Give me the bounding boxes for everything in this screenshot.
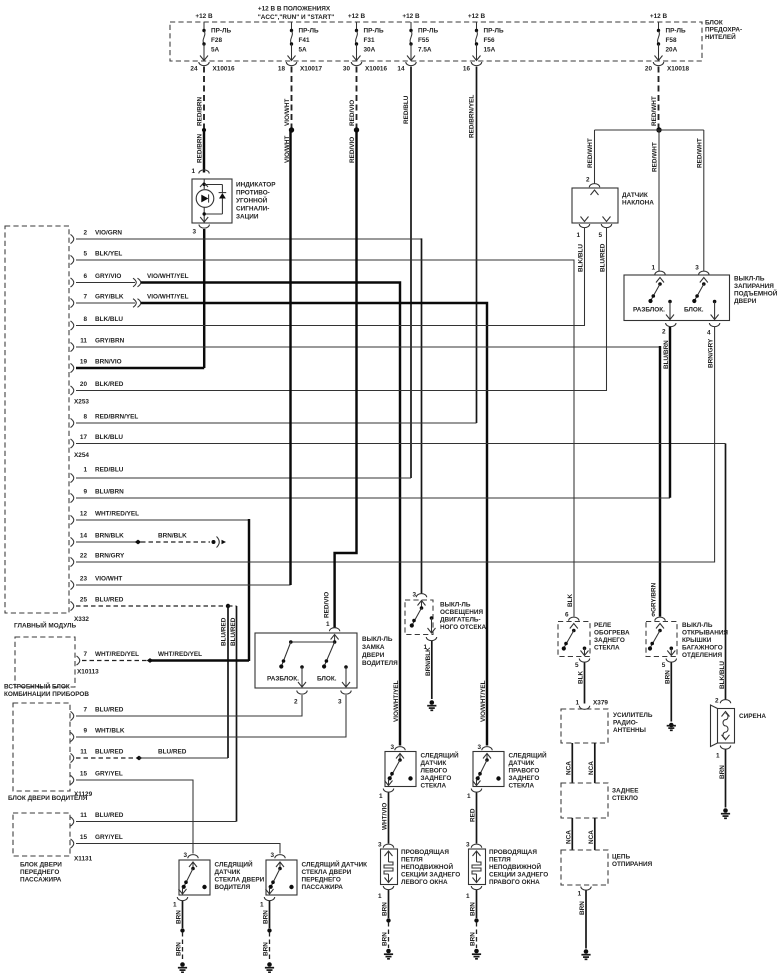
pin 1 connector of unlock circuit <box>577 887 591 916</box>
connector pin 14 of fuse F55 <box>397 62 416 73</box>
svg-text:1: 1 <box>575 700 579 707</box>
wire BLU/RED solid from splice up branch <box>139 748 228 758</box>
pin 11 BLU/RED of passenger door module <box>71 812 124 826</box>
pin 1 of driver door glass tracking sensor <box>173 897 188 909</box>
splice junction RED/WHT node <box>656 127 661 132</box>
splice on BRN wire of right rear window fixed section conducting loop <box>474 918 478 922</box>
svg-text:1: 1 <box>651 265 655 272</box>
wire BLU/RED jumper to second branch <box>228 605 237 607</box>
svg-text:ЗАМКА: ЗАМКА <box>362 644 385 651</box>
svg-text:+12 В: +12 В <box>650 13 668 20</box>
rear window ЗАДНЕЕ СТЕКЛО block <box>561 783 639 818</box>
wire NCA left from amplifier <box>565 743 572 783</box>
svg-text:+12 В: +12 В <box>402 13 420 20</box>
svg-text:ЗАДНЕГО: ЗАДНЕГО <box>421 775 452 782</box>
svg-text:ЗАДНЕГО: ЗАДНЕГО <box>509 775 540 782</box>
fuse F56 15A <box>473 22 504 61</box>
svg-text:ПРОВОДЯЩАЯ: ПРОВОДЯЩАЯ <box>401 849 449 856</box>
pin 2 of siren H1 <box>715 698 731 705</box>
svg-text:6: 6 <box>83 273 87 280</box>
svg-text:RED/WHT: RED/WHT <box>652 142 659 172</box>
svg-text:RED/VIO: RED/VIO <box>349 137 356 163</box>
svg-text:СИРЕНА: СИРЕНА <box>739 713 766 720</box>
svg-text:2: 2 <box>715 698 719 705</box>
pin 2 connector of lock switch <box>294 691 307 706</box>
svg-text:7: 7 <box>83 651 87 658</box>
svg-text:4: 4 <box>707 330 711 337</box>
svg-text:RED/WHT: RED/WHT <box>587 138 594 168</box>
svg-text:ДАТЧИК: ДАТЧИК <box>622 192 648 199</box>
svg-text:9: 9 <box>83 727 87 734</box>
svg-text:ЗАПИРАНИЯ: ЗАПИРАНИЯ <box>734 283 774 290</box>
pin 20 BLK/RED of main module <box>71 386 74 395</box>
switch contact БЛОК of hatch lock switch <box>684 278 708 314</box>
svg-text:СЛЕДЯЩИЙ: СЛЕДЯЩИЙ <box>421 751 459 760</box>
svg-text:VIO/GRN: VIO/GRN <box>95 229 122 236</box>
ground for driver door glass tracking sensor <box>178 962 187 972</box>
svg-text:8: 8 <box>83 413 87 420</box>
svg-text:BRN: BRN <box>176 942 183 956</box>
svg-text:ПР-ЛЬ: ПР-ЛЬ <box>299 28 319 35</box>
svg-text:ОБОГРЕВА: ОБОГРЕВА <box>594 630 630 637</box>
wire BRN dashed from splice of passenger door glass tracking sensor <box>263 932 270 962</box>
svg-text:РАДИО-: РАДИО- <box>613 720 638 727</box>
svg-text:ВЫКЛ-ЛЬ: ВЫКЛ-ЛЬ <box>734 276 765 283</box>
svg-text:3: 3 <box>390 744 394 751</box>
pin 5 contact and arrow of trunk release switch <box>667 647 675 656</box>
connector pin 18 of fuse F41 <box>278 62 323 73</box>
svg-text:ВОДИТЕЛЯ: ВОДИТЕЛЯ <box>362 660 398 667</box>
svg-text:8: 8 <box>83 316 87 323</box>
wire BRN/BLK from engine light switch to ground <box>431 641 433 699</box>
svg-text:ОТПИРАНИЯ: ОТПИРАНИЯ <box>612 861 653 868</box>
svg-text:11: 11 <box>80 812 87 819</box>
svg-text:ИНДИКАТОР: ИНДИКАТОР <box>236 182 276 189</box>
pin 3 of right rear window fixed section conducting loop <box>466 842 482 849</box>
svg-text:X1131: X1131 <box>74 856 93 863</box>
svg-text:ПРАВОГО: ПРАВОГО <box>509 768 540 775</box>
antenna connector symbol on BRN/BLK wire <box>212 537 227 548</box>
splice on wire RED/VIO <box>354 127 359 132</box>
pin 3 of right rear window tracking sensor <box>477 744 492 751</box>
svg-text:BLU/RED: BLU/RED <box>95 596 124 603</box>
svg-text:ПР-ЛЬ: ПР-ЛЬ <box>364 28 384 35</box>
svg-text:ПР-ЛЬ: ПР-ЛЬ <box>418 28 438 35</box>
svg-text:ВЫКЛ-ЛЬ: ВЫКЛ-ЛЬ <box>362 636 393 643</box>
svg-text:ПЕТЛЯ: ПЕТЛЯ <box>489 857 511 864</box>
fuse box enclosure (БЛОК ПРЕДОХРАНИТЕЛЕЙ) <box>170 20 742 62</box>
pin 1 of passenger door glass tracking sensor <box>260 897 275 909</box>
svg-text:30A: 30A <box>364 47 376 54</box>
svg-text:GRY/BRN: GRY/BRN <box>95 337 125 344</box>
ground for left rear window fixed section conducting loop <box>384 949 393 959</box>
svg-text:15A: 15A <box>484 47 496 54</box>
svg-text:ДАТЧИК: ДАТЧИК <box>215 869 241 876</box>
wire RED/VIO from fuse F31 with jog to lock switch pin 1 <box>324 130 357 628</box>
wire BLK/BLU from pin 17 to siren pin 2 <box>76 443 726 445</box>
svg-text:X10113: X10113 <box>77 669 99 676</box>
wire BRN from trunk switch pin 5 to ground <box>670 663 672 722</box>
svg-text:ОТКРЫВАНИЯ: ОТКРЫВАНИЯ <box>682 630 728 637</box>
left rear window tracking sensor <box>385 751 459 790</box>
svg-text:2: 2 <box>83 229 87 236</box>
wire RED/BLU from fuse F55 pin 14 <box>403 67 411 479</box>
driver door module БЛОК ДВЕРИ ВОДИТЕЛЯ enclosure <box>8 703 88 802</box>
svg-text:BLK: BLK <box>578 670 585 684</box>
LED indicator ИНДИКАТОР ПРОТИВОУГОННОЙ СИГНАЛИЗАЦИИ <box>192 179 276 223</box>
svg-text:ВЫКЛ-ЛЬ: ВЫКЛ-ЛЬ <box>682 622 713 629</box>
svg-text:BRN: BRN <box>263 910 270 924</box>
svg-text:3: 3 <box>192 229 196 236</box>
svg-text:30: 30 <box>343 66 351 73</box>
pin 14 BRN/BLK of main module <box>71 537 74 546</box>
wire BRN dashed from splice of left rear window fixed section conducting loop <box>382 922 389 948</box>
wire BLU/RED from passenger door pin 11 up branch <box>76 821 237 823</box>
right rear window fixed section conducting loop <box>469 849 549 886</box>
wire WHT/RED/YEL dashed from cluster pin 7 <box>82 660 148 662</box>
svg-text:F56: F56 <box>484 37 495 44</box>
svg-text:BLK/BLU: BLK/BLU <box>577 244 584 272</box>
svg-text:1: 1 <box>191 168 195 175</box>
svg-text:BRN: BRN <box>382 902 389 916</box>
pin 3 of driver door glass tracking sensor <box>183 852 198 859</box>
instrument cluster ВСТРОЕННЫЙ БЛОК КОМБИНАЦИИ ПРИБОРОВ enclosure <box>4 637 89 698</box>
svg-text:RED/BRN/YEL: RED/BRN/YEL <box>469 95 476 138</box>
svg-text:ДВЕРИ: ДВЕРИ <box>362 652 385 659</box>
svg-text:24: 24 <box>190 66 198 73</box>
wire RED/WHT branch to hatch lock switch pin 1 <box>652 130 660 271</box>
svg-text:"ACC","RUN" И "START": "ACC","RUN" И "START" <box>258 14 335 21</box>
svg-text:1: 1 <box>576 232 580 239</box>
svg-text:3: 3 <box>412 592 416 599</box>
wire BLU/BRN from pin 9 to hatch lock switch pin 2 <box>76 497 670 499</box>
wire VIO/WHT from pin 23 up to fuse F41 <box>76 584 291 586</box>
pin 15 GRY/YEL of driver door module <box>71 770 123 784</box>
svg-text:VIO/WHT/YEL: VIO/WHT/YEL <box>393 680 400 722</box>
svg-text:5: 5 <box>662 662 666 669</box>
pin 1 of LED indicator U1 <box>191 168 209 187</box>
svg-text:СТЕКЛО: СТЕКЛО <box>612 795 638 802</box>
svg-text:3: 3 <box>183 852 187 859</box>
svg-text:1: 1 <box>378 893 382 900</box>
wire VIO/WHT vertical from fuse F41 <box>289 130 291 585</box>
wire BLK from relay pin 5 to antenna amplifier <box>584 663 586 704</box>
svg-text:ВСТРОЕННЫЙ БЛОК: ВСТРОЕННЫЙ БЛОК <box>4 682 70 691</box>
svg-text:ПР-ЛЬ: ПР-ЛЬ <box>484 28 504 35</box>
svg-text:X332: X332 <box>74 616 89 623</box>
svg-text:3: 3 <box>695 265 699 272</box>
connector pin 16 of fuse F56 <box>463 62 482 73</box>
svg-text:ПАССАЖИРА: ПАССАЖИРА <box>20 877 62 884</box>
svg-text:ПАССАЖИРА: ПАССАЖИРА <box>302 884 344 891</box>
pin 6 of rear window heater relay K1 <box>565 593 579 620</box>
svg-text:BRN/BLK: BRN/BLK <box>158 532 187 539</box>
pin 6 GRY/VIO of main module <box>71 278 74 287</box>
wire GRY/YEL from driver door pin 15 to driver window sensor <box>76 780 193 854</box>
svg-text:22: 22 <box>80 552 88 559</box>
pin 3 contact and arrow of lock switch <box>342 665 350 687</box>
pin 7 GRY/BLK of main module <box>71 298 74 307</box>
wire WHT/BLK from door pin 9 to lock switch pin 3 <box>76 695 346 737</box>
svg-text:BRN: BRN <box>263 942 270 956</box>
svg-text:BLU/BRN: BLU/BRN <box>95 488 124 495</box>
svg-text:15: 15 <box>80 770 88 777</box>
svg-text:RED/BRN: RED/BRN <box>197 97 204 126</box>
svg-text:АНТЕННЫ: АНТЕННЫ <box>613 727 646 734</box>
pin 9 WHT/BLK of driver door module <box>71 727 125 741</box>
svg-text:+12 В: +12 В <box>468 13 486 20</box>
svg-text:RED: RED <box>470 808 477 822</box>
svg-text:РЕЛЕ: РЕЛЕ <box>594 622 612 629</box>
+12V ACC RUN START label F41 <box>258 6 335 22</box>
pin 3 of LED indicator U1 <box>192 217 209 236</box>
svg-text:6: 6 <box>565 612 569 619</box>
svg-text:BLU/RED: BLU/RED <box>599 243 606 272</box>
svg-text:СЕКЦИИ ЗАДНЕГО: СЕКЦИИ ЗАДНЕГО <box>489 872 548 879</box>
svg-text:F58: F58 <box>666 37 677 44</box>
svg-text:СЛЕДЯЩИЙ ДАТЧИК: СЛЕДЯЩИЙ ДАТЧИК <box>302 860 368 869</box>
svg-text:15: 15 <box>80 834 88 841</box>
svg-text:БЛОК: БЛОК <box>705 20 723 27</box>
right rear window tracking sensor <box>473 751 547 790</box>
pin 3 of passenger door glass tracking sensor <box>270 852 285 859</box>
wire BLU/RED dashed from pin 25 <box>76 605 226 607</box>
svg-text:RED/VIO: RED/VIO <box>324 592 331 618</box>
wire VIO/WHT from fuse pin (dashed harness) <box>284 67 292 129</box>
svg-text:3: 3 <box>466 842 470 849</box>
svg-text:BLK/YEL: BLK/YEL <box>95 250 122 257</box>
fuse F55 7.5A <box>407 22 438 61</box>
svg-text:ГЛАВНЫЙ МОДУЛЬ: ГЛАВНЫЙ МОДУЛЬ <box>14 621 76 630</box>
svg-text:1: 1 <box>466 893 470 900</box>
svg-text:ЗАЦИИ: ЗАЦИИ <box>236 214 259 221</box>
svg-text:3: 3 <box>378 842 382 849</box>
wire BLU/BRN thick segment below hatch pin 2 <box>669 327 671 498</box>
svg-text:BRN: BRN <box>664 670 671 684</box>
pin 2 connector of hatch lock switch <box>662 323 676 369</box>
svg-text:СТЕКЛА: СТЕКЛА <box>509 783 535 790</box>
svg-text:X10016: X10016 <box>213 66 235 73</box>
svg-text:ЛЕВОГО: ЛЕВОГО <box>421 768 448 775</box>
wire RED/BRN/YEL from fuse F56 pin 16 <box>469 67 477 424</box>
svg-text:X10018: X10018 <box>667 66 689 73</box>
svg-text:КРЫШКИ: КРЫШКИ <box>682 637 712 644</box>
svg-text:BLU/RED: BLU/RED <box>230 617 237 646</box>
svg-text:5: 5 <box>575 662 579 669</box>
pin 1 contact and arrow of engine light switch <box>428 616 436 633</box>
pin 4 contact and arrow of hatch lock switch <box>711 300 719 320</box>
trunk release switch ВЫКЛ-ЛЬ ОТКРЫВАНИЯ КРЫШКИ БАГАЖНОГО ОТДЕЛЕНИЯ <box>646 622 728 660</box>
svg-text:NCA: NCA <box>588 761 595 775</box>
siren СИРЕНА <box>711 705 767 747</box>
tilt sensor ДАТЧИК НАКЛОНА <box>572 188 654 223</box>
svg-text:7: 7 <box>83 706 87 713</box>
pin 1 RED/BLU of connector X254 <box>71 473 74 482</box>
passenger door glass tracking sensor <box>266 860 368 896</box>
wire BLK/YEL from pin 5 to heater relay pin 6 <box>76 260 574 617</box>
ground G1 for engine light switch <box>427 700 436 710</box>
svg-text:7.5A: 7.5A <box>418 47 432 54</box>
svg-text:VIO/WHT: VIO/WHT <box>284 99 291 126</box>
engine light switch ВЫКЛ-ЛЬ ОСВЕЩЕНИЯ ДВИГАТЕЛЬНОГО ОТСЕКА <box>405 600 487 635</box>
svg-text:3: 3 <box>477 744 481 751</box>
svg-text:+12 В: +12 В <box>195 13 213 20</box>
switch contact of heater relay <box>562 624 578 651</box>
svg-text:VIO/WHT/YEL: VIO/WHT/YEL <box>147 273 189 280</box>
svg-text:BLK/BLU: BLK/BLU <box>95 316 123 323</box>
inline connector on pin 6 wire <box>76 273 189 287</box>
svg-text:1: 1 <box>260 902 264 909</box>
svg-text:БЛОК.: БЛОК. <box>317 676 337 683</box>
pin 5 of tilt sensor <box>598 217 611 273</box>
wire RED/WHT bus to three branches <box>595 129 704 131</box>
pin 1 of tilt sensor <box>576 217 589 273</box>
pin 8 RED/BRN/YEL of connector X253 <box>71 418 74 427</box>
svg-text:СЛЕДЯЩИЙ: СЛЕДЯЩИЙ <box>215 860 253 869</box>
pin 5 BLK/YEL of main module <box>71 255 74 264</box>
fuse F41 5A <box>288 22 319 61</box>
svg-text:VIO/WHT: VIO/WHT <box>95 575 122 582</box>
svg-text:NCA: NCA <box>565 830 572 844</box>
svg-text:11: 11 <box>80 337 87 344</box>
wire RED/BRN solid to LED indicator pin 1 <box>203 130 205 173</box>
svg-text:НИТЕЛЕЙ: НИТЕЛЕЙ <box>705 32 736 41</box>
svg-text:ДАТЧИК: ДАТЧИК <box>421 760 447 767</box>
svg-text:ВОДИТЕЛЯ: ВОДИТЕЛЯ <box>215 884 251 891</box>
pin 5 connector of heater relay <box>575 659 590 685</box>
svg-text:BLK/RED: BLK/RED <box>95 381 124 388</box>
svg-text:25: 25 <box>80 596 88 603</box>
svg-text:GRY/BRN: GRY/BRN <box>651 582 658 612</box>
pin 8 BLK/BLU of main module <box>71 321 74 330</box>
wire WHT/RED/YEL solid to pin 12 branch <box>150 651 249 661</box>
fuse F31 30A <box>353 22 384 61</box>
splice on BRN/BLK wire <box>135 540 142 545</box>
connector pin 20 of fuse F58 <box>645 62 690 73</box>
svg-text:RED/BLU: RED/BLU <box>403 95 410 124</box>
svg-text:16: 16 <box>463 66 471 73</box>
driver door glass tracking sensor <box>179 860 265 896</box>
svg-text:УГОННОЙ: УГОННОЙ <box>236 196 268 205</box>
svg-text:5A: 5A <box>299 47 308 54</box>
svg-text:3: 3 <box>270 852 274 859</box>
pin 11 GRY/BRN of main module <box>71 342 74 351</box>
svg-text:RED/WHT: RED/WHT <box>696 138 703 168</box>
wire BLK/BLU from pin 8 to tilt sensor pin 1 <box>76 228 585 326</box>
pin 6 of trunk release switch <box>651 582 666 620</box>
svg-text:BRN: BRN <box>470 932 477 946</box>
wire BRN/BLK from pin 14 to antenna tap <box>76 541 137 543</box>
svg-text:1: 1 <box>173 902 177 909</box>
pin 1 of hatch lock switch <box>651 265 665 275</box>
pin 11 BLU/RED of driver door module <box>71 748 124 762</box>
pin 3 of left rear window fixed section conducting loop <box>378 842 394 849</box>
svg-text:17: 17 <box>80 434 88 441</box>
rear window heater relay РЕЛЕ ОБОГРЕВА ЗАДНЕГО СТЕКЛА <box>558 622 630 657</box>
svg-text:WHT/RED/YEL: WHT/RED/YEL <box>158 651 202 658</box>
wire BRN from driver door glass tracking sensor to splice <box>176 901 183 928</box>
svg-text:1: 1 <box>326 621 330 628</box>
svg-text:RED/BRN/YEL: RED/BRN/YEL <box>95 413 138 420</box>
ground for passenger door glass tracking sensor <box>265 962 274 972</box>
svg-text:RED/WHT: RED/WHT <box>651 96 658 126</box>
svg-text:1: 1 <box>379 793 383 800</box>
svg-text:ЦЕПЬ: ЦЕПЬ <box>612 854 631 861</box>
pin 2 contact and arrow of hatch lock switch <box>666 300 674 320</box>
svg-text:КОМБИНАЦИИ ПРИБОРОВ: КОМБИНАЦИИ ПРИБОРОВ <box>4 691 89 698</box>
switch contact РАЗБЛОК of hatch lock switch <box>633 278 665 314</box>
svg-text:X253: X253 <box>74 399 89 406</box>
svg-text:X254: X254 <box>74 452 89 459</box>
svg-text:СТЕКЛА ДВЕРИ: СТЕКЛА ДВЕРИ <box>215 877 265 884</box>
svg-text:19: 19 <box>80 358 88 365</box>
ground for right rear window fixed section conducting loop <box>472 949 481 959</box>
svg-text:18: 18 <box>278 66 286 73</box>
antenna amplifier УСИЛИТЕЛЬ РАДИОАНТЕННЫ <box>561 709 653 743</box>
svg-text:RED/VIO: RED/VIO <box>349 100 356 126</box>
wire BRN from siren pin 1 to ground <box>725 750 727 808</box>
svg-text:БЛОК.: БЛОК. <box>684 307 704 314</box>
svg-text:ПЕТЛЯ: ПЕТЛЯ <box>401 857 423 864</box>
wire BRN from left rear window fixed section conducting loop to splice <box>382 890 389 918</box>
wire BRN from passenger door glass tracking sensor to splice <box>263 901 270 928</box>
svg-text:BLU/RED: BLU/RED <box>95 706 124 713</box>
pin 4 connector of hatch lock switch <box>707 323 720 368</box>
wire VIO/WHT/YEL from pin 7 to right rear window sensor <box>141 303 487 746</box>
svg-text:BLK/BLU: BLK/BLU <box>719 661 726 689</box>
svg-text:5: 5 <box>83 250 87 257</box>
svg-text:НОГО ОТСЕКА: НОГО ОТСЕКА <box>440 624 487 631</box>
svg-text:20: 20 <box>80 381 88 388</box>
svg-text:СТЕКЛА: СТЕКЛА <box>594 645 620 652</box>
svg-text:ПРОТИВО-: ПРОТИВО- <box>236 190 270 197</box>
pin 3 connector of lock switch <box>338 691 351 706</box>
pin 7 BLU/RED of driver door module <box>71 706 124 720</box>
switch contact of trunk release switch <box>648 624 664 651</box>
wire NCA right from rear window <box>588 818 595 850</box>
svg-text:1: 1 <box>467 793 471 800</box>
svg-text:ПРОВОДЯЩАЯ: ПРОВОДЯЩАЯ <box>489 849 537 856</box>
wire BLU/RED branch to driver door module pin 11 <box>221 606 229 758</box>
pin 7 WHT/RED/YEL of instrument cluster <box>77 651 140 665</box>
pin 1 of right rear window fixed section conducting loop <box>466 886 482 900</box>
svg-text:1: 1 <box>716 753 720 760</box>
pin 1 connector of engine light switch <box>423 637 436 676</box>
wire BRN dashed from splice of right rear window fixed section conducting loop <box>470 922 477 948</box>
wire GRY/BRN from pin 11 to trunk release switch pin 6 <box>76 346 660 348</box>
svg-text:X1129: X1129 <box>74 791 93 798</box>
svg-text:11: 11 <box>80 748 87 755</box>
switch contact РАЗБЛОК of lock switch <box>267 642 299 683</box>
svg-text:BLU/RED: BLU/RED <box>221 617 228 646</box>
svg-text:BLK: BLK <box>567 593 574 607</box>
svg-text:BRN/GRY: BRN/GRY <box>95 552 125 559</box>
svg-text:ЛЕВОГО ОКНА: ЛЕВОГО ОКНА <box>401 879 448 886</box>
pin 17 BLK/BLU of connector X253 <box>71 439 74 448</box>
svg-text:BLU/RED: BLU/RED <box>95 812 124 819</box>
pin 1 of left rear window tracking sensor <box>379 789 394 801</box>
wire RED from right sensor pin 1 to loop <box>470 793 477 844</box>
svg-text:NCA: NCA <box>565 761 572 775</box>
splice on wire VIO/WHT <box>289 127 294 132</box>
svg-text:RED/BRN: RED/BRN <box>197 134 204 163</box>
connector pin 30 of fuse F31 <box>343 62 388 73</box>
wire BRN/GRY from pin 22 to hatch lock switch pin 4 <box>76 327 715 562</box>
wire BLU/RED from door pin 7 to lock switch pin 2 <box>76 695 302 716</box>
pin 15 GRY/YEL of passenger door module <box>71 834 123 848</box>
wire WHT/RED/YEL from pin 12 down to cluster junction <box>76 519 249 521</box>
splice junction on BLU/RED wire <box>226 604 230 608</box>
